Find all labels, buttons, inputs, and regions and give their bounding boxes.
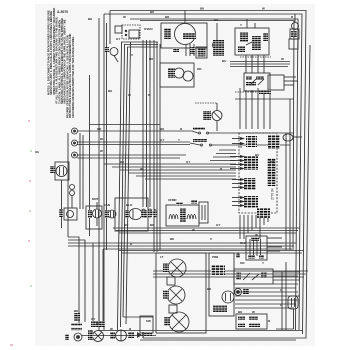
oven lamp 3 <box>164 305 189 332</box>
wire terminal leads <box>77 131 192 158</box>
wire top rail L1 <box>110 11 306 335</box>
wire control exits <box>240 215 268 239</box>
relay K2 <box>199 202 208 223</box>
notes text block <box>47 8 75 118</box>
convection motor <box>105 210 116 218</box>
wire cross link <box>90 124 161 126</box>
wire switch outputs <box>209 133 294 145</box>
oven selector switch <box>161 23 207 56</box>
wire right rails <box>286 99 290 250</box>
wire long mid bus <box>104 164 236 179</box>
wire connector stubs <box>230 139 240 206</box>
thermal fuse <box>289 23 299 50</box>
transformer T1 <box>166 200 199 226</box>
control board dashed <box>239 133 302 218</box>
wire left rail A <box>109 11 111 45</box>
lock motor cluster <box>213 40 225 56</box>
wire left rail B <box>104 14 107 330</box>
latch aux box <box>115 26 122 33</box>
wire door switch leads <box>122 42 159 48</box>
wire switch row leads <box>273 262 300 330</box>
clock ERC box <box>236 236 284 260</box>
wire left bundle <box>89 75 91 236</box>
wire top rail L2 <box>104 14 302 330</box>
winding coils <box>141 208 157 218</box>
wire centre-left verticals <box>118 42 131 330</box>
clock motor <box>203 103 222 131</box>
bottom-right bus <box>235 288 300 308</box>
small box bottom-left <box>140 316 153 336</box>
wire relay right exits <box>284 77 298 85</box>
wire rail drops top <box>185 11 295 41</box>
bottom connector stack <box>65 313 82 341</box>
wire relay leads <box>230 62 290 67</box>
part number label <box>57 10 68 14</box>
wire lower bus <box>119 251 304 254</box>
wire mid verticals <box>143 40 160 252</box>
door latch switch <box>122 25 140 39</box>
wire right mid verticals <box>240 88 270 129</box>
capacitor <box>276 296 298 329</box>
door lock motor <box>50 162 69 228</box>
broil switch <box>190 139 212 146</box>
labels scatter <box>35 7 294 332</box>
lamp box <box>156 253 206 333</box>
bottom switch bank <box>236 314 267 329</box>
lock cam switches <box>59 133 83 220</box>
bottom fan cluster <box>88 321 105 342</box>
relay cluster top-right <box>235 28 271 73</box>
relay box DLB <box>244 73 284 91</box>
wire lamp feed bus <box>153 271 308 277</box>
wire right horizontal bundle <box>210 150 236 161</box>
terminal block <box>68 128 78 237</box>
wire mid bus 2 <box>113 228 300 233</box>
wire dashed sensor line <box>195 90 294 103</box>
oven light switch P <box>105 47 118 62</box>
wire left L-drops <box>68 237 296 325</box>
bottom-right switch rows <box>234 269 273 296</box>
bottom small part <box>110 332 115 339</box>
wire top rail 4 <box>140 21 294 251</box>
bake switch <box>192 127 209 134</box>
wire top rail 3 <box>130 19 298 330</box>
bottom motor <box>116 330 135 341</box>
wire left rail C <box>99 18 303 331</box>
cooling fan motor <box>86 202 102 229</box>
oven light assembly <box>160 63 194 87</box>
wire bottom rails <box>82 336 296 341</box>
wire right outer border <box>143 45 310 338</box>
oven fan motor <box>115 198 148 231</box>
probe box <box>209 253 234 316</box>
bottom diode <box>137 332 144 338</box>
oven lamp 2 <box>163 277 185 304</box>
latch relay <box>196 47 207 58</box>
oven lamp 1 <box>163 259 186 277</box>
wire big box corner <box>123 316 153 318</box>
connector arrows <box>240 137 245 207</box>
scan speckles <box>10 120 31 346</box>
